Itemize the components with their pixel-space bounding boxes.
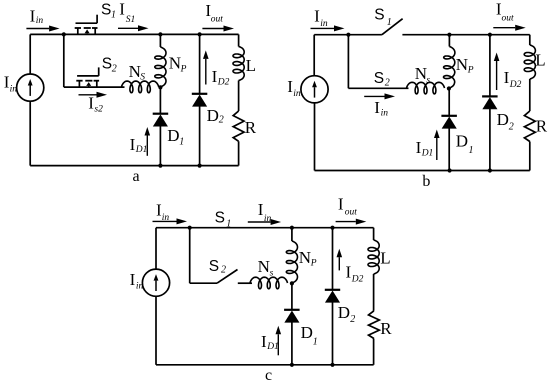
wire: circuit a left rail lower	[29, 101, 31, 166]
wire: circuit b bottom rail	[315, 170, 530, 172]
diode D2 (circuit b)	[482, 96, 498, 109]
label S2 (b)	[374, 70, 390, 89]
current arrow ID1 (b)	[434, 130, 440, 161]
wire: D1 to bottom rail (c)	[291, 322, 293, 365]
svg-text:1: 1	[387, 17, 392, 28]
svg-text:out: out	[211, 14, 224, 24]
wire: switch S2 closed (circuit b)	[348, 87, 408, 89]
node: Ns/Np/D1 junction (a)	[158, 85, 162, 89]
wire: D2 upper lead (b)	[489, 35, 491, 97]
current arrow ID2 (c)	[337, 249, 343, 271]
wire: circuit c right rail middle	[373, 274, 375, 311]
label Ns (a)	[129, 62, 146, 83]
svg-text:I: I	[374, 98, 380, 117]
wire: circuit c right rail bottom	[373, 339, 375, 365]
wire: D1 anode-to-junction (a)	[159, 87, 161, 113]
svg-text:in: in	[36, 16, 44, 26]
svg-text:I: I	[130, 135, 136, 154]
svg-text:S: S	[215, 210, 225, 227]
svg-text:I: I	[314, 7, 320, 26]
node: junction top rail / S2 branch (b)	[346, 33, 350, 37]
label Iin below S2 (b)	[374, 98, 388, 119]
node: Np top junction (a)	[158, 32, 162, 36]
svg-text:2: 2	[385, 78, 390, 89]
wire: S2 contact to coil (c)	[238, 282, 252, 284]
wire: circuit c left rail lower	[155, 296, 157, 365]
label S1 (c)	[215, 210, 232, 230]
wire: circuit b right rail middle	[529, 79, 531, 111]
current arrow IS1 (a)	[118, 25, 149, 31]
svg-text:1: 1	[179, 137, 184, 148]
wire: circuit b right rail bottom	[529, 142, 531, 171]
svg-text:2: 2	[509, 122, 514, 133]
svg-text:D2: D2	[217, 78, 230, 88]
label L (a)	[246, 56, 256, 75]
svg-text:in: in	[10, 84, 18, 94]
label ID1 (b)	[416, 138, 434, 159]
svg-text:S: S	[140, 73, 145, 83]
svg-text:R: R	[536, 117, 548, 136]
wire: Np top lead (b)	[448, 35, 450, 47]
node: D2 bottom junction (a)	[198, 164, 202, 168]
svg-text:I: I	[338, 194, 344, 213]
node: D1 bottom junction (c)	[290, 363, 294, 367]
wire: S2 branch horizontal (c)	[190, 282, 217, 284]
transistor S2 (MOSFET, circuit a)	[76, 67, 99, 87]
inductor Ns secondary winding (b)	[407, 82, 445, 94]
svg-text:c: c	[265, 367, 272, 381]
label c (subfigure)	[265, 367, 272, 381]
resistor R (circuit c)	[369, 311, 380, 339]
label ID1 (c)	[261, 332, 279, 352]
svg-text:D1: D1	[135, 145, 148, 155]
label R (c)	[380, 319, 392, 338]
node: D1 bottom junction (a)	[158, 164, 162, 168]
label Iin source (c)	[130, 270, 144, 292]
current arrow Iin mid (c)	[248, 219, 281, 225]
svg-text:L: L	[535, 51, 545, 70]
svg-text:S: S	[374, 70, 384, 87]
svg-text:I: I	[88, 94, 94, 113]
svg-text:S: S	[374, 7, 384, 24]
current arrow Iin (a)	[26, 26, 59, 32]
node: Np top junction (c)	[290, 226, 294, 230]
svg-text:P: P	[310, 259, 317, 269]
label L (b)	[535, 51, 545, 70]
inductor L (circuit c)	[368, 240, 379, 274]
wire: circuit b left rail lower	[314, 103, 316, 171]
label Iin source (b)	[287, 77, 301, 99]
label D1 (a)	[167, 126, 184, 148]
wire: circuit c bottom rail	[156, 364, 374, 366]
inductor Np primary winding (c)	[286, 241, 297, 283]
label Iin mid (c)	[258, 200, 272, 224]
svg-text:N: N	[169, 54, 181, 73]
svg-text:D: D	[207, 106, 219, 125]
switch S2 blade (open, circuit c)	[217, 270, 238, 284]
wire: circuit a right rail top	[238, 34, 240, 46]
svg-text:s2: s2	[94, 105, 103, 115]
label Np (b)	[456, 55, 474, 76]
current arrow ID1 (c)	[276, 326, 282, 356]
svg-text:D1: D1	[421, 149, 434, 159]
svg-text:in: in	[320, 19, 328, 29]
label R (a)	[245, 118, 257, 137]
svg-text:D: D	[497, 110, 509, 129]
diode D2 (circuit c)	[325, 290, 340, 303]
svg-text:I: I	[30, 6, 36, 25]
label D2 (a)	[207, 106, 224, 126]
wire: D1 to bottom rail (b)	[448, 128, 450, 170]
svg-text:D: D	[338, 303, 350, 322]
diode D1 (circuit c)	[284, 310, 300, 323]
svg-text:s: s	[270, 269, 274, 279]
svg-text:D2: D2	[351, 275, 364, 285]
diode D2 (circuit a)	[192, 94, 208, 107]
svg-text:1: 1	[469, 145, 474, 156]
node: D2 top junction (b)	[488, 33, 492, 37]
svg-text:2: 2	[219, 115, 224, 126]
svg-text:L: L	[246, 56, 256, 75]
svg-text:I: I	[130, 270, 136, 289]
wire: circuit a right rail bottom	[238, 141, 240, 165]
inductor Ns secondary winding (c)	[250, 277, 288, 289]
svg-text:D: D	[456, 131, 468, 150]
label D1 (b)	[456, 131, 474, 156]
current arrow ID1 (a)	[145, 127, 151, 156]
wire: S2 channel to coil (a)	[64, 86, 125, 88]
svg-text:in: in	[264, 214, 272, 224]
label D1 (c)	[301, 323, 318, 348]
node: junction top rail / S2 branch (a)	[62, 32, 66, 36]
svg-text:out: out	[502, 13, 515, 23]
wire: circuit b right rail top	[529, 35, 531, 45]
svg-text:I: I	[119, 0, 125, 19]
label Np (c)	[299, 248, 317, 269]
svg-text:N: N	[299, 248, 311, 267]
wire: D1 to bottom rail (a)	[159, 126, 161, 165]
wire: circuit a top rail	[30, 33, 238, 35]
svg-text:N: N	[456, 55, 468, 74]
node: D2 bottom junction (b)	[488, 168, 492, 172]
label S2 (c)	[209, 258, 226, 276]
svg-text:I: I	[416, 138, 422, 157]
svg-text:in: in	[162, 213, 170, 223]
wire: Np top lead (a)	[159, 34, 161, 47]
resistor R (circuit b)	[524, 111, 535, 142]
label D2 (b)	[497, 110, 514, 133]
svg-text:b: b	[422, 173, 430, 190]
node: Ns/Np/D1 junction (c)	[290, 281, 294, 285]
label S1 (b)	[374, 7, 392, 29]
wire: circuit c top rail	[156, 227, 374, 229]
svg-text:P: P	[467, 66, 474, 76]
svg-text:a: a	[133, 168, 140, 185]
svg-text:out: out	[345, 207, 358, 217]
label a (subfigure)	[133, 168, 140, 185]
wire: circuit a right rail middle	[238, 81, 240, 112]
label Np (a)	[169, 54, 187, 75]
diode D1 (circuit b)	[441, 116, 457, 129]
wire: circuit b top rail left	[314, 34, 382, 36]
svg-text:2: 2	[112, 64, 117, 75]
svg-text:N: N	[258, 257, 270, 276]
node: Ns/Np/D1 junction (b)	[447, 86, 451, 90]
switch S1 blade (open, circuit b)	[382, 19, 403, 35]
inductor Ns secondary winding (a)	[122, 81, 159, 93]
label ID2 (a)	[212, 67, 230, 88]
label L (c)	[380, 249, 390, 268]
inductor Np primary winding (a)	[155, 47, 166, 87]
node: D2 bottom junction (c)	[330, 363, 334, 367]
svg-text:S: S	[101, 2, 111, 19]
wire: D1 anode-to-junction (b)	[448, 89, 450, 116]
current arrow Iin mid (b)	[364, 93, 395, 99]
current arrow ID2 (b)	[494, 53, 500, 91]
label Iin source (a)	[4, 73, 17, 95]
label Iin top-left (b)	[314, 7, 328, 30]
svg-text:in: in	[381, 109, 389, 119]
svg-text:I: I	[261, 332, 267, 351]
svg-text:N: N	[129, 62, 141, 81]
wire: circuit c left rail upper	[155, 228, 157, 269]
label Iout (a)	[205, 1, 223, 24]
svg-text:1: 1	[313, 337, 318, 348]
svg-text:P: P	[180, 65, 187, 75]
wire: D2 to bottom rail (a)	[199, 106, 201, 165]
node: D1 bottom junction (b)	[448, 168, 452, 172]
svg-text:D2: D2	[509, 80, 522, 90]
wire: circuit c right rail top	[373, 228, 375, 240]
wire: D2 to bottom rail (b)	[489, 109, 491, 171]
inductor Np primary winding (b)	[444, 47, 455, 89]
label b (subfigure)	[422, 173, 430, 190]
svg-text:L: L	[380, 249, 390, 268]
label Ns (c)	[258, 257, 274, 279]
node: Np top junction (b)	[447, 33, 451, 37]
transistor S1 (MOSFET, circuit a)	[75, 15, 98, 35]
label S1 (a)	[101, 2, 116, 21]
svg-text:D1: D1	[266, 342, 279, 352]
svg-text:D: D	[167, 126, 179, 145]
inductor L (circuit b)	[524, 45, 535, 79]
current source Iin (circuit b)	[301, 76, 328, 103]
svg-text:1: 1	[111, 10, 116, 21]
label Iin top-left (a)	[30, 6, 44, 26]
label ID2 (b)	[504, 68, 522, 90]
svg-text:R: R	[380, 319, 392, 338]
wire: D1 anode-to-junction (c)	[291, 283, 293, 309]
svg-text:D: D	[301, 323, 313, 342]
wire: Np top lead (c)	[291, 228, 293, 241]
label R (b)	[536, 117, 548, 136]
svg-text:1: 1	[226, 219, 231, 230]
svg-text:S: S	[209, 258, 219, 275]
wire: S2 branch vertical (b)	[347, 35, 349, 89]
wire: circuit a bottom rail	[30, 165, 238, 167]
svg-text:I: I	[258, 200, 264, 219]
wire: circuit b top rail right	[402, 34, 529, 36]
wire: D2 upper lead (a)	[199, 34, 201, 93]
wire: S2 branch vertical (a)	[63, 34, 65, 87]
current arrow Iout (c)	[336, 219, 367, 225]
svg-text:in: in	[136, 282, 144, 292]
wire: S2 branch vertical (c)	[189, 228, 191, 284]
current source Iin (circuit c)	[142, 269, 169, 296]
svg-text:N: N	[415, 64, 427, 83]
svg-text:2: 2	[350, 314, 355, 325]
wire: D2 upper lead (c)	[332, 228, 334, 290]
label Ns (b)	[415, 64, 431, 86]
node: D2 top junction (a)	[198, 32, 202, 36]
current source Iin (circuit a)	[17, 74, 44, 101]
current arrow Iout (b)	[493, 25, 525, 31]
label D2 (c)	[338, 303, 356, 325]
label ID2 (c)	[346, 263, 364, 285]
node: junction top rail / S2 branch (c)	[188, 226, 192, 230]
label Iout (b)	[496, 0, 514, 23]
diode D1 (circuit a)	[153, 114, 169, 127]
wire: circuit b left rail upper	[313, 35, 315, 76]
svg-text:in: in	[293, 89, 301, 99]
svg-text:2: 2	[221, 265, 226, 276]
current arrow Iout (a)	[202, 26, 234, 32]
svg-text:I: I	[504, 68, 510, 87]
svg-text:S: S	[102, 56, 112, 73]
current arrow ID2 (a)	[203, 50, 209, 84]
wire: circuit a left rail upper	[29, 34, 31, 74]
label Iout (c)	[338, 194, 357, 217]
svg-text:s: s	[426, 76, 430, 86]
svg-text:I: I	[346, 263, 352, 282]
label S2 (a)	[102, 56, 117, 75]
wire: D2 to bottom rail (c)	[332, 302, 334, 365]
resistor R (circuit a)	[233, 111, 244, 141]
node: D2 top junction (c)	[330, 226, 334, 230]
current arrow Is2 (a)	[79, 92, 108, 98]
svg-text:R: R	[245, 118, 257, 137]
label Iin left (c)	[156, 201, 169, 224]
current arrow Iin top (b)	[311, 25, 345, 31]
inductor L (circuit a)	[233, 47, 244, 81]
label ID1 (a)	[130, 135, 148, 155]
label IS1 (a)	[119, 0, 135, 25]
svg-text:S1: S1	[126, 15, 136, 25]
current arrow Iin left (c)	[153, 218, 188, 224]
label Is2 (a)	[88, 94, 103, 115]
svg-text:I: I	[212, 67, 218, 86]
